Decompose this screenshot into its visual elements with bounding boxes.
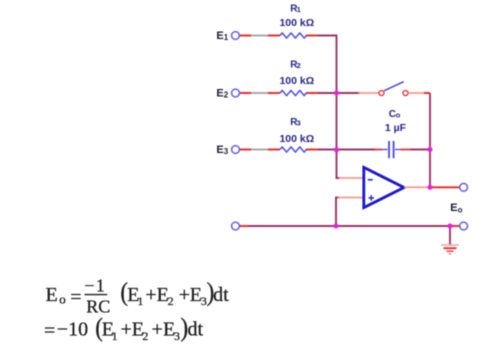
resistor R3 value 100 kOhm [279,133,314,145]
svg-text:o: o [458,206,463,215]
svg-text:2: 2 [297,61,301,70]
wire summing bus vertical [318,36,340,179]
svg-text:1 µF: 1 µF [385,122,407,134]
svg-text:−1: −1 [84,276,106,296]
resistor R1 pin left [251,35,269,37]
capacitor C0 label [389,109,401,120]
wire feedback branch vertical [429,93,431,187]
node junction R2 bus [334,91,339,96]
svg-text:E: E [216,88,223,100]
svg-text:dt: dt [213,284,229,306]
terminal E3 [232,146,240,154]
capacitor C0 [382,141,401,158]
svg-text:=: = [70,287,81,309]
wire switch feed [337,92,379,94]
wire capacitor feed left [337,149,383,151]
wire switch to right branch [408,92,430,94]
wire R2 to bus [318,92,337,94]
svg-text:dt: dt [188,319,204,341]
equation line 1 [46,276,230,317]
resistor R3 label [290,117,301,128]
switch S1 [379,82,408,96]
svg-text:3: 3 [297,119,301,128]
node E1 label [216,30,228,42]
resistor R1 pin red [268,35,319,37]
svg-text:2: 2 [224,91,229,100]
resistor R3 pin red [268,149,319,151]
node junction output [428,185,433,190]
svg-text:3: 3 [224,147,229,156]
wire ground rail bottom [248,225,450,227]
svg-text:1: 1 [137,294,143,308]
wire ground drop [449,226,451,245]
resistor R2 label [290,60,301,71]
resistor R1 label [290,4,301,15]
node E3 label [216,144,228,156]
wire inverting input stub [339,177,364,179]
resistor R3 [280,147,306,152]
svg-text:E: E [46,284,58,306]
svg-text:2: 2 [142,329,148,343]
wire E3 lead [239,149,252,151]
svg-text:1: 1 [297,5,301,14]
node E2 label [216,88,228,100]
wire op-amp output [404,186,430,188]
node junction ground [448,224,453,229]
svg-text:=: = [44,320,55,342]
ground [441,245,459,254]
wire E2 lead [239,92,252,94]
svg-text:E: E [450,202,457,214]
wire capacitor feed right [401,149,431,151]
terminal bottom right [460,222,468,230]
node junction plus rail [334,224,339,229]
terminal E2 [232,89,240,97]
svg-text:+: + [145,284,156,306]
capacitor C0 value 1 uF [385,122,407,134]
svg-text:+: + [152,319,163,341]
op-amp U1 [364,167,404,207]
node Eo label [450,202,462,215]
terminal bottom left [232,222,240,230]
svg-text:+: + [179,284,190,306]
svg-text:E: E [216,30,223,42]
terminal E1 [232,32,240,40]
svg-text:o: o [396,111,401,120]
svg-text:o: o [59,292,65,307]
wire ground rail to output terminal [450,225,460,227]
equation line 2 [44,314,204,343]
wire bottom terminal lead [239,225,249,227]
svg-text:100 kΩ: 100 kΩ [279,75,314,87]
resistor R2 pin left [251,92,269,94]
svg-text:100 kΩ: 100 kΩ [279,17,314,29]
node junction R3 bus [334,147,339,152]
svg-text:−10: −10 [57,319,88,341]
node junction capacitor right [428,147,433,152]
wire R3 to bus [318,149,337,151]
svg-text:3: 3 [174,329,180,343]
wire E1 lead [239,35,252,37]
resistor R2 [280,90,306,95]
resistor R3 pin left [251,149,269,151]
resistor R1 value 100 kOhm [279,17,314,29]
wire output to terminal [430,186,460,188]
svg-text:E: E [216,144,223,156]
svg-text:2: 2 [168,294,174,308]
resistor R2 pin red [268,92,319,94]
terminal Eo output [460,183,468,191]
resistor R1 [280,33,306,38]
svg-text:1: 1 [112,329,118,343]
svg-text:1: 1 [224,33,229,42]
resistor R2 value 100 kOhm [279,75,314,87]
svg-text:+: + [121,319,132,341]
svg-text:100 kΩ: 100 kΩ [279,133,314,145]
wire non-inverting input [336,198,364,227]
